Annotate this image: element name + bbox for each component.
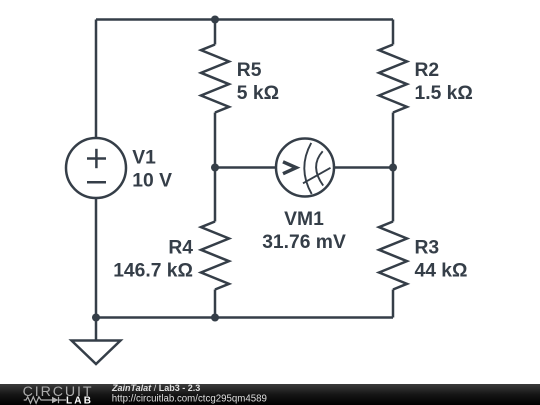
svg-text:R3: R3 — [415, 238, 440, 259]
svg-text:146.7 kΩ: 146.7 kΩ — [113, 261, 193, 282]
svg-text:31.76 mV: 31.76 mV — [262, 232, 346, 253]
svg-text:5 kΩ: 5 kΩ — [237, 83, 279, 104]
svg-text:ZainTalat / Lab3 - 2.3: ZainTalat / Lab3 - 2.3 — [111, 384, 200, 393]
svg-text:V1: V1 — [132, 147, 156, 168]
svg-text:VM1: VM1 — [284, 209, 324, 230]
svg-text:http://circuitlab.com/ctcg295q: http://circuitlab.com/ctcg295qm4589 — [112, 393, 267, 404]
svg-text:10 V: 10 V — [132, 171, 172, 192]
svg-text:44 kΩ: 44 kΩ — [415, 261, 468, 282]
svg-text:R2: R2 — [415, 60, 440, 81]
svg-text:R4: R4 — [168, 238, 193, 259]
svg-text:R5: R5 — [237, 60, 262, 81]
svg-text:LAB: LAB — [66, 395, 93, 405]
svg-text:1.5 kΩ: 1.5 kΩ — [415, 83, 473, 104]
